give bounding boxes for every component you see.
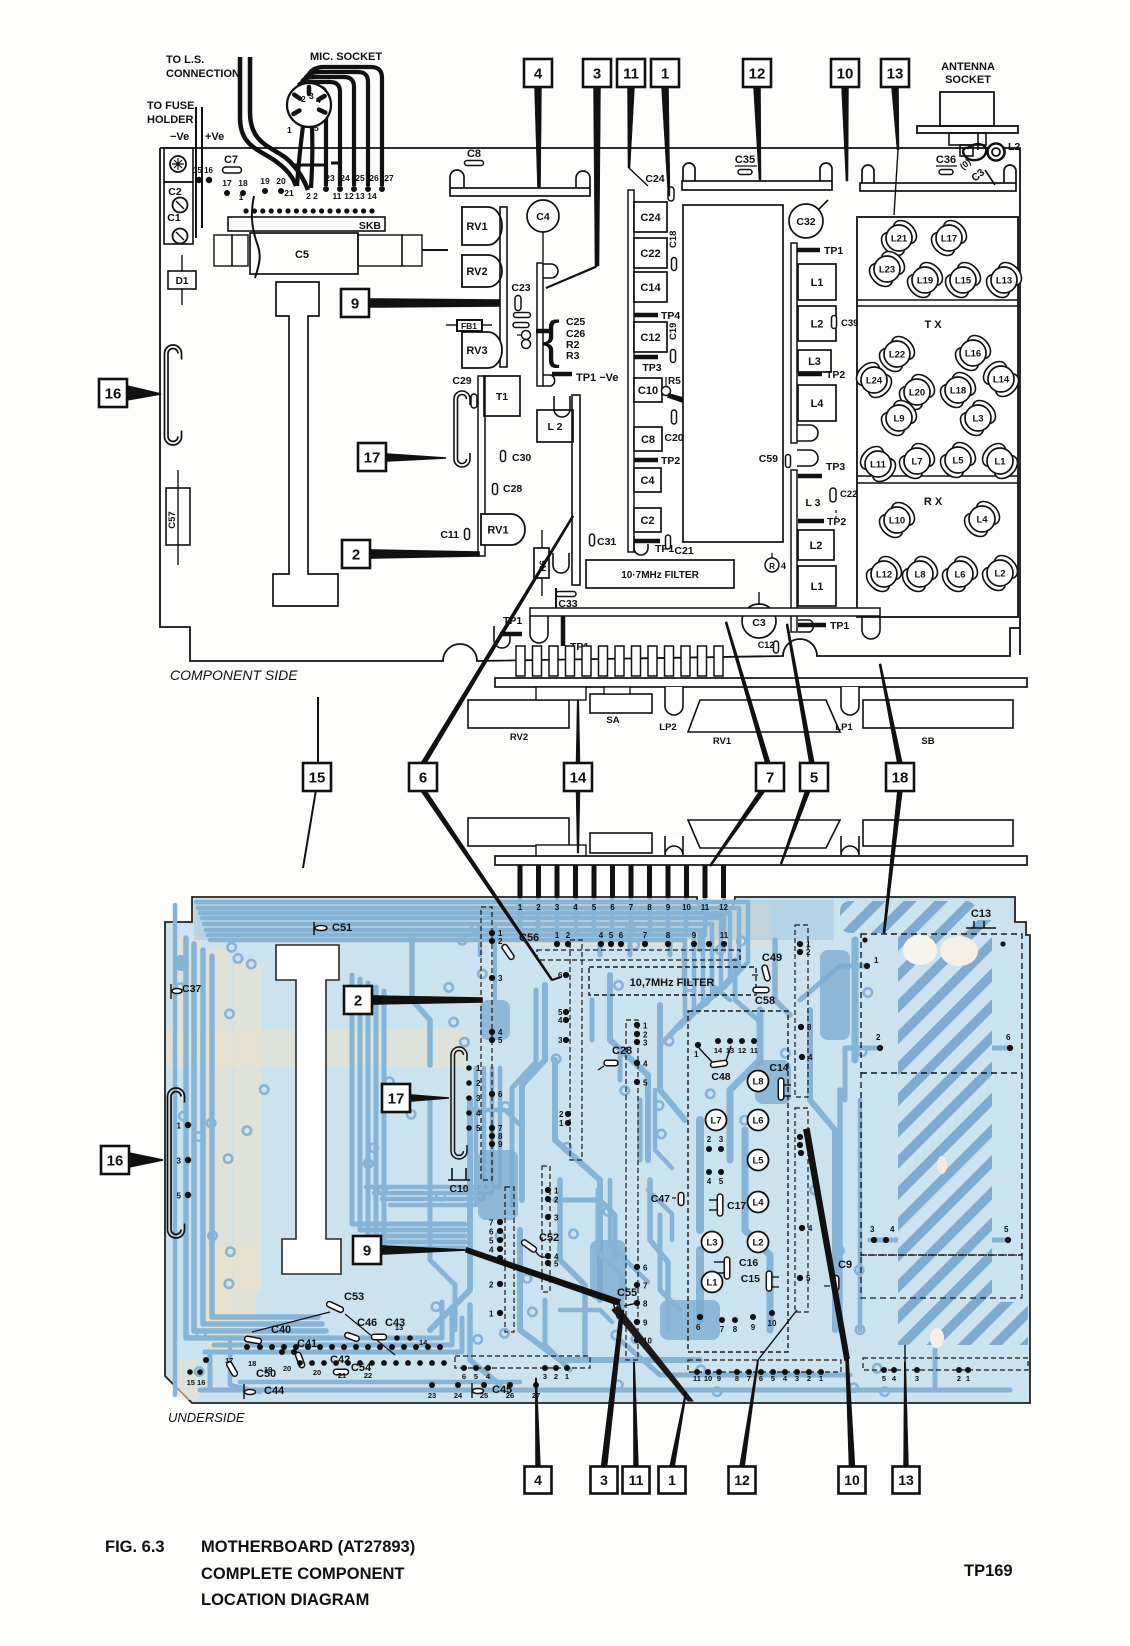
svg-text:5: 5 [719,1177,724,1186]
svg-text:RV2: RV2 [510,732,528,743]
svg-text:2: 2 [807,1374,811,1383]
svg-text:R3: R3 [566,350,580,362]
svg-text:6: 6 [462,1372,466,1381]
svg-text:8: 8 [735,1374,739,1383]
svg-text:SA: SA [606,715,619,726]
svg-text:3: 3 [498,974,503,983]
svg-text:HOLDER: HOLDER [147,114,194,126]
svg-text:1: 1 [559,1119,564,1128]
svg-text:21: 21 [338,1371,346,1380]
svg-text:LP2: LP2 [659,722,676,733]
svg-text:2: 2 [957,1374,961,1383]
svg-text:T X: T X [924,319,942,331]
svg-text:9: 9 [692,931,697,940]
svg-text:C24: C24 [640,212,661,224]
svg-text:C18: C18 [668,231,679,248]
svg-text:L13: L13 [996,276,1012,287]
svg-text:L14: L14 [993,375,1010,386]
svg-text:5: 5 [771,1374,775,1383]
svg-text:COMPLETE COMPONENT: COMPLETE COMPONENT [201,1565,405,1583]
svg-text:L7: L7 [911,457,922,468]
svg-text:L4: L4 [811,398,825,410]
svg-text:RV3: RV3 [466,345,487,357]
svg-text:C58: C58 [755,995,775,1007]
svg-text:9: 9 [717,1374,721,1383]
svg-text:19: 19 [260,176,270,186]
svg-text:3: 3 [177,1157,182,1166]
svg-text:C25: C25 [566,316,585,328]
svg-text:10: 10 [768,1319,777,1328]
svg-text:C4: C4 [536,211,550,223]
svg-text:L1: L1 [811,581,824,593]
svg-text:7: 7 [747,1374,751,1383]
svg-text:5: 5 [474,1372,478,1381]
svg-text:C8: C8 [467,148,481,160]
svg-text:C57: C57 [167,511,178,528]
svg-text:L19: L19 [917,276,933,287]
svg-text:C40: C40 [271,1324,291,1336]
svg-text:22: 22 [364,1371,372,1380]
svg-text:9: 9 [498,1140,503,1149]
svg-text:1: 1 [668,1472,676,1488]
svg-text:4: 4 [643,1060,648,1069]
svg-text:3: 3 [543,1372,547,1381]
svg-text:L2: L2 [752,1238,763,1249]
svg-text:L1: L1 [994,457,1006,468]
svg-text:RV1: RV1 [713,736,732,747]
svg-text:TP1 −Ve: TP1 −Ve [576,372,619,384]
svg-text:26: 26 [369,173,379,183]
svg-text:3: 3 [807,1023,812,1032]
svg-text:1: 1 [476,1064,481,1073]
svg-text:C5: C5 [295,249,309,261]
svg-text:5: 5 [806,1274,811,1283]
svg-text:4: 4 [316,95,321,105]
svg-text:4: 4 [534,65,543,82]
svg-text:6: 6 [696,1323,701,1332]
svg-text:14: 14 [570,769,587,786]
svg-text:2: 2 [352,546,360,563]
svg-text:20: 20 [276,176,286,186]
svg-text:C46: C46 [357,1317,377,1329]
svg-text:9: 9 [643,1319,648,1328]
svg-text:10: 10 [844,1472,860,1488]
svg-text:4: 4 [707,1177,712,1186]
svg-text:D1: D1 [176,276,189,287]
svg-text:2: 2 [554,1372,558,1381]
svg-text:L22: L22 [889,350,905,361]
svg-text:1: 1 [554,1187,559,1196]
svg-text:L4: L4 [752,1198,764,1209]
svg-text:6: 6 [419,769,427,786]
svg-text:C4: C4 [640,475,655,487]
svg-text:C24: C24 [645,173,664,185]
svg-text:1: 1 [177,1122,182,1131]
svg-text:5: 5 [592,903,597,912]
svg-text:C29: C29 [452,375,471,387]
svg-text:4: 4 [489,1246,494,1255]
svg-text:TP1: TP1 [830,620,849,632]
svg-text:C12: C12 [758,640,775,650]
svg-text:5: 5 [314,123,319,133]
svg-text:3: 3 [600,1472,608,1488]
svg-text:RV1: RV1 [466,221,487,233]
svg-text:C19: C19 [668,323,679,340]
svg-text:11: 11 [750,1046,758,1055]
svg-text:C2: C2 [168,186,182,198]
svg-text:C47: C47 [651,1193,670,1205]
svg-text:C16: C16 [739,1257,758,1269]
svg-text:15 16: 15 16 [193,166,214,175]
svg-text:7: 7 [720,1325,725,1334]
svg-text:12: 12 [734,1472,750,1488]
svg-text:C28: C28 [612,1045,632,1057]
svg-text:C10: C10 [638,385,658,397]
svg-text:1: 1 [874,956,879,965]
svg-text:4: 4 [781,561,786,571]
svg-text:RV2: RV2 [466,266,487,278]
svg-text:TP4: TP4 [661,310,680,322]
svg-text:1: 1 [966,1374,970,1383]
svg-text:6: 6 [610,903,615,912]
svg-text:1: 1 [239,192,244,202]
svg-text:6: 6 [498,1090,503,1099]
svg-text:4: 4 [890,1225,895,1234]
svg-text:2: 2 [489,1281,494,1290]
svg-text:4: 4 [573,903,578,912]
svg-text:6: 6 [619,931,624,940]
svg-text:TP169: TP169 [964,1562,1013,1580]
svg-text:13: 13 [395,1323,403,1332]
svg-text:R X: R X [924,496,943,508]
svg-text:2: 2 [476,1079,481,1088]
svg-text:L21: L21 [891,234,908,245]
svg-text:1: 1 [694,1050,699,1059]
svg-text:L4: L4 [976,515,988,526]
svg-text:L18: L18 [950,386,966,397]
svg-text:UNDERSIDE: UNDERSIDE [168,1410,245,1425]
svg-text:3: 3 [870,1225,875,1234]
svg-text:C14: C14 [640,282,661,294]
svg-text:T1: T1 [496,391,508,403]
svg-text:R5: R5 [668,376,681,387]
svg-text:6: 6 [643,1264,648,1273]
svg-text:C3: C3 [752,617,766,629]
svg-text:C31: C31 [597,536,616,548]
svg-text:16: 16 [107,1152,124,1169]
svg-text:L9: L9 [893,414,904,425]
svg-text:TP3: TP3 [642,362,661,374]
svg-text:C20: C20 [664,432,683,444]
svg-text:9: 9 [351,295,359,312]
svg-text:L1: L1 [706,1278,718,1289]
svg-text:15 16: 15 16 [187,1378,206,1387]
svg-text:1: 1 [489,1310,494,1319]
svg-text:LOCATION DIAGRAM: LOCATION DIAGRAM [201,1591,369,1609]
svg-text:5: 5 [643,1079,648,1088]
svg-text:2: 2 [536,903,541,912]
svg-text:L2: L2 [811,319,824,331]
svg-text:FB1: FB1 [461,321,477,331]
svg-text:TP2: TP2 [661,455,680,467]
svg-text:C23: C23 [511,282,530,294]
svg-text:5: 5 [810,769,818,786]
svg-text:5: 5 [498,1036,503,1045]
svg-text:C55: C55 [617,1287,637,1299]
svg-text:L10: L10 [889,516,905,527]
svg-text:18: 18 [892,769,909,786]
svg-text:5: 5 [476,1124,481,1133]
svg-text:8: 8 [647,903,652,912]
svg-text:L3: L3 [706,1238,717,1249]
svg-text:C11: C11 [440,529,459,541]
svg-text:2: 2 [566,931,571,940]
svg-text:5: 5 [1004,1225,1009,1234]
svg-text:L23: L23 [879,265,895,276]
svg-text:11: 11 [623,65,639,82]
svg-text:L3: L3 [972,414,983,425]
svg-text:5: 5 [177,1192,182,1201]
svg-text:1: 1 [555,931,560,940]
svg-text:MIC. SOCKET: MIC. SOCKET [310,51,382,63]
svg-text:C7: C7 [224,154,238,166]
svg-text:C8: C8 [641,434,655,446]
svg-text:TP3: TP3 [826,461,845,473]
svg-text:C32: C32 [796,216,815,228]
svg-text:C1: C1 [167,212,181,224]
svg-text:24: 24 [454,1391,463,1400]
svg-text:11: 11 [333,191,342,201]
svg-text:C22: C22 [640,248,660,260]
svg-text:12: 12 [719,903,728,912]
svg-text:11: 11 [693,1374,701,1383]
svg-text:10: 10 [704,1374,712,1383]
svg-text:26: 26 [506,1391,514,1400]
svg-text:3: 3 [554,1214,559,1223]
svg-text:C49: C49 [762,952,782,964]
svg-text:17: 17 [364,449,381,466]
svg-text:27: 27 [384,173,394,183]
svg-text:7: 7 [489,1219,494,1228]
svg-text:ANTENNA: ANTENNA [941,61,995,73]
svg-text:C9: C9 [838,1259,852,1271]
svg-text:2: 2 [301,94,306,104]
svg-text:FIG. 6.3: FIG. 6.3 [105,1538,165,1556]
svg-text:C44: C44 [264,1385,285,1397]
svg-text:COMPONENT SIDE: COMPONENT SIDE [170,667,298,683]
svg-text:CONNECTION: CONNECTION [166,68,240,80]
svg-text:16: 16 [105,385,122,402]
svg-text:7: 7 [643,931,648,940]
svg-text:17: 17 [388,1090,405,1107]
svg-text:10·7MHz FILTER: 10·7MHz FILTER [621,570,699,581]
svg-text:20: 20 [283,1364,291,1373]
svg-text:1: 1 [643,1022,648,1031]
svg-text:L11: L11 [870,460,887,471]
svg-text:C37: C37 [182,983,201,995]
svg-text:L 2: L 2 [548,421,563,433]
svg-text:1: 1 [518,903,523,912]
svg-text:3: 3 [476,1094,481,1103]
svg-text:5: 5 [882,1374,886,1383]
svg-text:1: 1 [819,1374,823,1383]
svg-text:L7: L7 [710,1116,721,1127]
svg-text:17: 17 [222,178,232,188]
svg-text:LP1: LP1 [835,722,853,733]
svg-text:3: 3 [309,91,314,101]
svg-text:R: R [769,562,775,571]
svg-text:14: 14 [419,1338,428,1347]
svg-text:C28: C28 [503,483,522,495]
svg-text:8: 8 [666,931,671,940]
svg-text:C53: C53 [344,1291,364,1303]
svg-text:L2: L2 [994,569,1005,580]
svg-text:L15: L15 [955,276,972,287]
svg-text:1: 1 [661,65,669,82]
svg-text:C21: C21 [674,545,693,557]
svg-text:4: 4 [534,1472,542,1488]
svg-text:10,7MHz FILTER: 10,7MHz FILTER [630,977,715,989]
svg-text:3: 3 [915,1374,919,1383]
svg-text:12: 12 [749,65,766,82]
svg-text:4: 4 [558,1016,563,1025]
svg-text:L16: L16 [965,349,981,360]
svg-text:L 3: L 3 [806,497,821,509]
svg-text:{: { [543,311,560,369]
svg-text:2: 2 [554,1196,559,1205]
svg-text:11: 11 [629,1472,644,1488]
svg-text:C36: C36 [936,154,956,166]
svg-text:TP1: TP1 [824,245,843,257]
svg-text:L3: L3 [808,356,821,368]
svg-text:TP2: TP2 [826,369,845,381]
svg-text:5: 5 [609,931,614,940]
svg-text:14: 14 [714,1046,723,1055]
svg-text:25: 25 [355,173,365,183]
svg-text:4: 4 [808,1053,813,1062]
svg-text:L5: L5 [752,1156,764,1167]
svg-text:19: 19 [264,1365,272,1374]
svg-text:+Ve: +Ve [205,131,224,143]
svg-text:L2: L2 [810,540,823,552]
svg-text:20: 20 [313,1368,321,1377]
svg-text:RV1: RV1 [487,525,508,537]
svg-text:5: 5 [489,1237,494,1246]
svg-text:10: 10 [837,65,854,82]
svg-text:14: 14 [367,191,377,201]
svg-text:L6: L6 [752,1116,763,1127]
svg-text:C13: C13 [971,908,991,920]
svg-text:13: 13 [887,65,904,82]
svg-text:TP2: TP2 [827,516,846,528]
svg-text:4: 4 [599,931,604,940]
svg-text:1: 1 [287,125,292,135]
svg-text:TO L.S.: TO L.S. [166,54,204,66]
svg-text:C52: C52 [539,1232,559,1244]
svg-text:SB: SB [921,736,934,747]
svg-text:C14: C14 [769,1062,788,1074]
svg-text:17: 17 [225,1356,233,1365]
svg-text:6: 6 [489,1228,494,1237]
svg-text:L24: L24 [866,376,883,387]
svg-text:4: 4 [808,1224,813,1233]
svg-text:2: 2 [707,1135,712,1144]
svg-text:−Ve: −Ve [170,131,189,143]
svg-text:8: 8 [643,1300,648,1309]
svg-text:5: 5 [554,1260,559,1269]
svg-text:3: 3 [719,1135,724,1144]
svg-text:11: 11 [701,903,710,912]
svg-text:1: 1 [565,1372,569,1381]
svg-text:12: 12 [344,191,354,201]
svg-text:C15: C15 [741,1273,760,1285]
svg-text:3: 3 [555,903,560,912]
svg-text:L1: L1 [811,277,824,289]
svg-text:MOTHERBOARD (AT27893): MOTHERBOARD (AT27893) [201,1538,415,1556]
svg-text:2: 2 [806,948,811,957]
svg-text:2: 2 [559,1110,564,1119]
svg-text:L12: L12 [876,570,892,581]
svg-text:24: 24 [340,173,350,183]
svg-text:C30: C30 [512,452,531,464]
svg-text:2: 2 [498,937,503,946]
svg-text:23: 23 [325,173,335,183]
svg-text:15: 15 [309,769,326,786]
svg-text:C39: C39 [841,318,858,329]
svg-text:L8: L8 [752,1077,763,1088]
svg-text:18: 18 [248,1359,256,1368]
svg-text:4: 4 [476,1109,481,1118]
svg-text:21: 21 [284,188,294,198]
svg-text:25: 25 [480,1391,488,1400]
svg-text:C48: C48 [711,1071,730,1083]
svg-text:L5: L5 [952,456,964,467]
svg-text:C22: C22 [840,489,857,500]
svg-text:L17: L17 [941,234,957,245]
svg-text:L6: L6 [954,570,965,581]
svg-text:7: 7 [766,769,774,786]
svg-text:3: 3 [643,1039,648,1048]
svg-text:9: 9 [751,1323,756,1332]
svg-text:11: 11 [720,931,729,940]
svg-text:C51: C51 [332,922,352,934]
svg-text:3: 3 [795,1374,799,1383]
svg-text:L8: L8 [914,570,925,581]
svg-text:18: 18 [238,178,248,188]
svg-text:C10: C10 [449,1183,468,1195]
svg-text:13: 13 [898,1472,914,1488]
svg-text:L2: L2 [1008,141,1020,153]
svg-text:2: 2 [876,1033,881,1042]
svg-text:7: 7 [643,1282,648,1291]
svg-text:23: 23 [428,1391,436,1400]
svg-text:C59: C59 [759,453,778,465]
svg-text:C35: C35 [735,154,755,166]
svg-text:6: 6 [1006,1033,1011,1042]
svg-text:TP1: TP1 [655,543,674,555]
svg-text:3: 3 [558,1036,563,1045]
svg-text:C17: C17 [727,1200,746,1212]
svg-text:9: 9 [666,903,671,912]
svg-text:9: 9 [363,1242,371,1259]
svg-text:3: 3 [593,65,601,82]
svg-text:7: 7 [629,903,634,912]
svg-text:SOCKET: SOCKET [945,74,991,86]
svg-text:C2: C2 [640,515,654,527]
svg-text:10: 10 [682,903,691,912]
svg-text:8: 8 [733,1325,738,1334]
svg-text:L20: L20 [909,388,925,399]
